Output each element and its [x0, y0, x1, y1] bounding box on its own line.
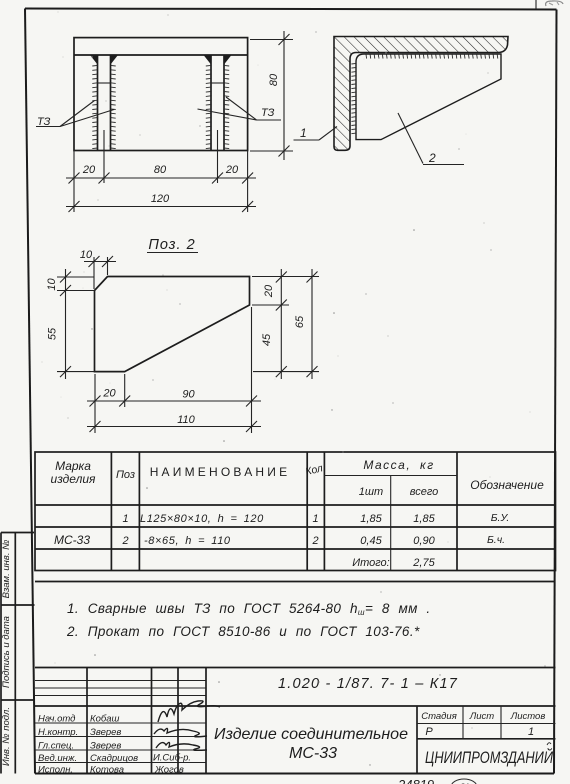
svg-text:110: 110 [177, 414, 195, 426]
svg-text:Поз. 2: Поз. 2 [148, 237, 195, 253]
notes box top line [35, 581, 556, 583]
svg-text:20: 20 [263, 284, 275, 298]
svg-text:2: 2 [121, 535, 128, 547]
detail title Poz. 2 [147, 237, 198, 253]
svg-text:24819: 24819 [397, 777, 434, 784]
svg-text:-8×65, h = 110: -8×65, h = 110 [144, 535, 231, 547]
svg-text:Вед.инж.: Вед.инж. [38, 753, 77, 764]
svg-text:Скадрицов: Скадрицов [90, 753, 138, 764]
svg-text:Котова: Котова [90, 765, 124, 776]
svg-text:65: 65 [294, 315, 306, 328]
svg-text:2,75: 2,75 [412, 557, 435, 569]
svg-text:И.Сиб-р.: И.Сиб-р. [153, 753, 191, 764]
svg-text:всего: всего [410, 486, 439, 498]
front view: angle body outline [74, 38, 248, 151]
svg-text:Н.контр.: Н.контр. [38, 727, 78, 738]
table row 1: angle L125x80x10 [122, 512, 509, 525]
front view: extension lines [74, 40, 293, 213]
svg-text:1,85: 1,85 [360, 513, 382, 525]
front view: weld callout T3 left [36, 101, 114, 129]
svg-text:90: 90 [182, 389, 195, 401]
detail: bottom dimensions 20 and 90 [87, 388, 261, 407]
top-right corner stamp box [536, 0, 563, 9]
front view: vertical dimension 80 [268, 31, 290, 160]
detail: top dimension 10 [80, 249, 116, 267]
detail: extension lines [57, 257, 319, 433]
svg-text:80: 80 [268, 73, 280, 86]
svg-text:Б.ч.: Б.ч. [487, 534, 505, 546]
side view: leader 2 (plate) [398, 113, 464, 165]
front view: weld callout T3 right [198, 97, 282, 120]
detail: bottom overall dimension 110 [87, 414, 261, 432]
signature texts rows 4-5 [153, 753, 191, 776]
svg-text:Зверев: Зверев [90, 741, 121, 752]
svg-text:Масса, кг: Масса, кг [363, 458, 434, 472]
detail: right overall dimension 65 [294, 269, 318, 379]
svg-text:1,85: 1,85 [413, 513, 435, 525]
svg-text:Р: Р [425, 726, 433, 738]
svg-text:Инв. № подл.: Инв. № подл. [1, 707, 12, 766]
svg-text:Б.У.: Б.У. [491, 512, 510, 524]
svg-text:Зверев: Зверев [90, 727, 121, 738]
svg-text:Подпись и дата: Подпись и дата [1, 616, 12, 688]
svg-text:Гл.спец.: Гл.спец. [38, 741, 74, 752]
side view: leader 1 (angle) [294, 126, 338, 140]
svg-text:1шт: 1шт [359, 486, 383, 498]
parts table grid [35, 452, 556, 571]
svg-text:Поз: Поз [116, 469, 135, 481]
svg-text:80: 80 [154, 164, 167, 176]
title block grid [35, 668, 556, 774]
svg-text:55: 55 [47, 327, 59, 340]
svg-text:10: 10 [80, 249, 93, 261]
svg-text:Лист: Лист [469, 711, 495, 722]
front view: left gusset plate with welds [90, 55, 118, 151]
svg-text:2: 2 [428, 151, 436, 165]
svg-text:ТЗ: ТЗ [261, 107, 275, 119]
front view: dimension line 120 [66, 193, 256, 212]
table totals row [352, 557, 435, 569]
table headers [51, 458, 545, 498]
signature rows labels [38, 714, 138, 776]
svg-text:1.020 - 1/87. 7- 1 – К17: 1.020 - 1/87. 7- 1 – К17 [278, 676, 458, 692]
side view: plate item 2 outline [351, 54, 501, 140]
svg-text:Изделие соединительное: Изделие соединительное [214, 726, 408, 743]
svg-text:Стадия: Стадия [421, 711, 457, 722]
front view: right gusset plate with welds [204, 55, 232, 151]
signatures (squiggles) [154, 701, 220, 751]
svg-text:Взам. инв. №: Взам. инв. № [1, 540, 12, 599]
table row 2: plate -8x65 [121, 534, 505, 547]
svg-text:Нач.отд: Нач.отд [38, 714, 75, 725]
svg-text:Итого:: Итого: [352, 557, 390, 569]
front view: dimension line 20 / 80 / 20 [66, 164, 256, 184]
side view: angle section with hatching [334, 37, 508, 151]
detail: plate polygon [95, 277, 250, 372]
stage / sheet headers [421, 711, 545, 738]
product name [214, 726, 408, 762]
svg-text:1: 1 [528, 726, 534, 738]
svg-text:Исполн.: Исполн. [38, 765, 73, 776]
svg-text:20: 20 [82, 164, 96, 176]
svg-text:ЦНИИПРОМЗДАНИЙ: ЦНИИПРОМЗДАНИЙ [425, 748, 553, 767]
svg-text:2: 2 [311, 535, 318, 547]
svg-text:10: 10 [46, 278, 58, 291]
svg-text:120: 120 [151, 193, 170, 205]
svg-text:МС-33: МС-33 [54, 533, 90, 547]
svg-text:0,90: 0,90 [413, 535, 435, 547]
svg-text:изделия: изделия [51, 472, 96, 486]
svg-text:45: 45 [261, 333, 273, 346]
svg-text:0,45: 0,45 [360, 535, 382, 547]
bottom stamp number 24819 (clipped) [397, 777, 477, 784]
detail: left dimensions 10 and 55 [46, 269, 71, 379]
svg-text:1. Сварные швы ТЗ по ГОСТ: 1. Сварные швы ТЗ по ГОСТ 5264-80 hш= 8 … [67, 601, 431, 617]
svg-text:20: 20 [225, 164, 239, 176]
svg-text:МС-33: МС-33 [289, 745, 337, 762]
svg-text:Марка: Марка [55, 459, 91, 473]
svg-text:20: 20 [102, 388, 116, 400]
detail: right dimensions 20 and 45 [261, 269, 287, 379]
svg-text:L125×80×10, h = 120: L125×80×10, h = 120 [140, 513, 264, 525]
svg-text:Кобаш: Кобаш [90, 714, 120, 725]
svg-text:1: 1 [122, 513, 128, 525]
svg-text:2. Прокат по ГОСТ 8510-86: 2. Прокат по ГОСТ 8510-86 и по ГОСТ 103-… [66, 624, 420, 639]
svg-text:Жогов: Жогов [154, 765, 184, 776]
svg-text:1: 1 [312, 513, 318, 525]
svg-text:1: 1 [300, 126, 307, 140]
svg-text:Листов: Листов [510, 711, 546, 722]
svg-text:НАИМЕНОВАНИЕ: НАИМЕНОВАНИЕ [150, 465, 291, 479]
svg-text:Обозначение: Обозначение [470, 478, 544, 492]
organization name [425, 743, 553, 767]
left margin boxes [1, 533, 35, 774]
